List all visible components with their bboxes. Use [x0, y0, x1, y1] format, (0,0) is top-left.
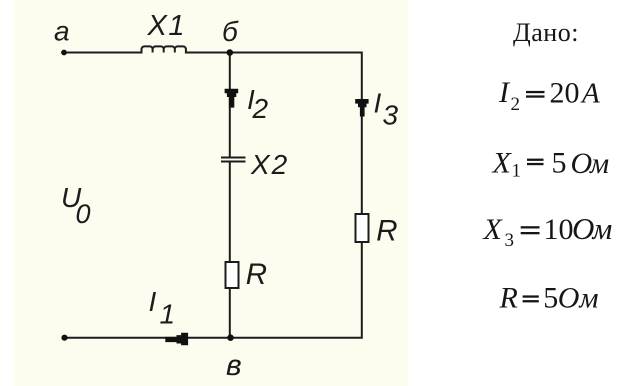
svg-text:О: О [572, 211, 594, 246]
svg-text:2: 2 [511, 94, 521, 115]
svg-text:5: 5 [543, 281, 558, 314]
svg-text:А: А [580, 78, 600, 110]
svg-text:а: а [54, 16, 70, 47]
svg-text:в: в [226, 349, 242, 382]
svg-text:X: X [483, 213, 504, 246]
svg-text:1: 1 [160, 298, 176, 329]
svg-text:б: б [222, 16, 239, 47]
svg-text:2: 2 [252, 93, 269, 124]
svg-text:10: 10 [544, 213, 574, 246]
svg-text:X1: X1 [147, 10, 186, 42]
svg-text:I: I [149, 286, 157, 317]
svg-text:0: 0 [76, 199, 91, 229]
svg-text:5: 5 [552, 147, 567, 180]
svg-text:Ом: Ом [558, 282, 599, 315]
svg-text:I: I [374, 88, 382, 119]
svg-text:R: R [499, 281, 518, 314]
svg-text:R: R [376, 214, 397, 247]
svg-text:О: О [571, 147, 593, 180]
svg-text:м: м [592, 211, 613, 246]
svg-text:X: X [492, 147, 513, 180]
svg-text:м: м [589, 147, 609, 180]
svg-text:X2: X2 [250, 149, 289, 180]
svg-text:3: 3 [505, 230, 515, 251]
svg-text:20: 20 [550, 77, 580, 110]
svg-text:R: R [246, 258, 267, 291]
svg-text:Дано:: Дано: [513, 18, 579, 47]
svg-text:1: 1 [512, 160, 522, 181]
svg-text:3: 3 [383, 99, 399, 130]
